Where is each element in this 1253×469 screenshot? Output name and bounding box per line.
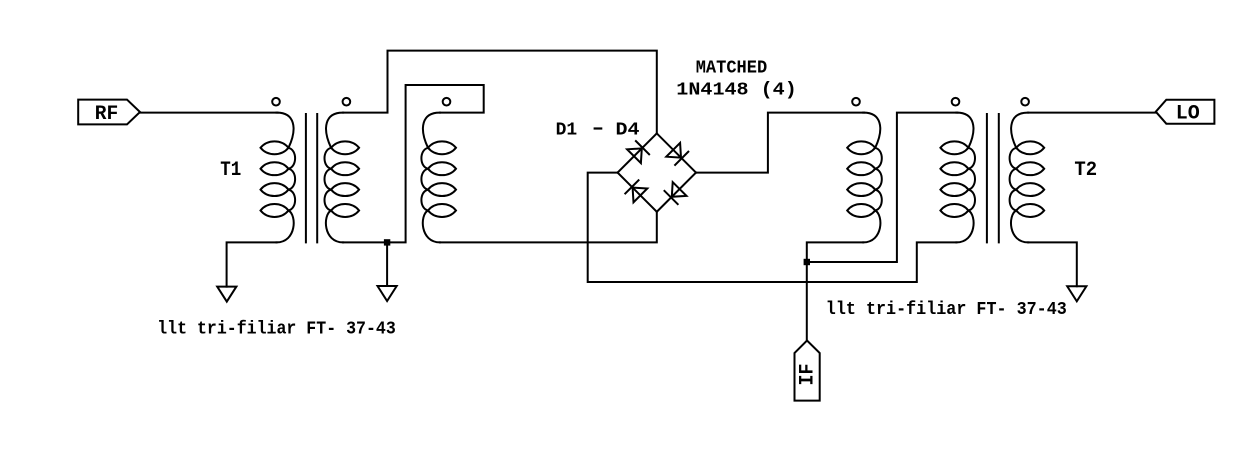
svg-text:IF: IF <box>797 364 820 386</box>
svg-text:D1: D1 <box>556 120 578 140</box>
wire T2 right winding top to LO <box>1028 112 1156 114</box>
wire T1 tertiary bottom to diode ring bottom <box>440 212 657 243</box>
transformer T2 core <box>987 114 999 242</box>
junction IF node <box>804 259 810 265</box>
port flag RF <box>78 100 140 126</box>
svg-text:MATCHED: MATCHED <box>696 58 768 78</box>
port flag IF <box>795 341 820 401</box>
polarity dot T2 middle <box>952 98 960 106</box>
ground G1 <box>217 287 236 302</box>
svg-text:llt tri-filiar FT- 37-43: llt tri-filiar FT- 37-43 <box>157 320 396 340</box>
diode D4 (bottom vertex to left vertex) <box>618 173 657 212</box>
port flag LO <box>1156 100 1215 126</box>
transformer T2 middle winding <box>940 113 975 243</box>
transformer T1 secondary winding <box>325 113 360 243</box>
wire T1 secondary bottom / tertiary top loop <box>343 85 484 242</box>
wire T1 primary bottom to ground <box>227 242 277 286</box>
note MATCHED 1N4148 (4) <box>676 58 797 100</box>
polarity dot T2 left <box>852 98 860 106</box>
transformer T2 left winding <box>847 113 882 243</box>
junction on T1 secondary bottom <box>384 239 390 245</box>
ground G2 <box>378 286 397 301</box>
polarity dot T2 right <box>1021 98 1029 106</box>
svg-text:T1: T1 <box>220 159 241 182</box>
wire junction to ground <box>386 242 388 286</box>
wire RF lead <box>140 112 278 114</box>
svg-text:1N4148 (4): 1N4148 (4) <box>676 80 797 100</box>
polarity dot T1 primary <box>272 98 280 106</box>
diode D1 (left vertex to top vertex) <box>618 133 657 172</box>
wire diode ring left vertex to T2 middle winding bottom <box>588 173 957 282</box>
transformer T1 tertiary winding <box>421 113 456 243</box>
label D1 - D4 <box>556 120 640 140</box>
wire diode ring right vertex to T2 left winding top <box>696 113 864 173</box>
transformer T1 primary winding <box>261 113 296 243</box>
ground G3 <box>1067 286 1086 301</box>
transformer T1 core <box>306 114 317 242</box>
svg-text:D4: D4 <box>616 120 640 140</box>
polarity dot T1 secondary <box>343 98 351 106</box>
svg-text:llt tri-filiar FT- 37-43: llt tri-filiar FT- 37-43 <box>826 300 1067 320</box>
polarity dot T1 tertiary <box>443 98 451 106</box>
svg-text:LO: LO <box>1176 102 1200 125</box>
svg-text:RF: RF <box>95 103 119 126</box>
wire T2 left winding bottom to IF junction <box>807 242 863 262</box>
svg-text:T2: T2 <box>1074 159 1097 182</box>
diode D3 (right vertex to bottom vertex) <box>657 173 696 212</box>
wire T1 secondary top to top rail to diode ring top <box>343 51 657 134</box>
transformer T2 right winding <box>1010 113 1045 243</box>
wire IF junction down to IF flag <box>806 262 808 341</box>
wire T2 middle winding top to IF junction <box>807 113 958 262</box>
wire T2 right winding bottom to ground <box>1028 242 1077 286</box>
diode D2 (top vertex to right vertex) <box>657 133 696 172</box>
